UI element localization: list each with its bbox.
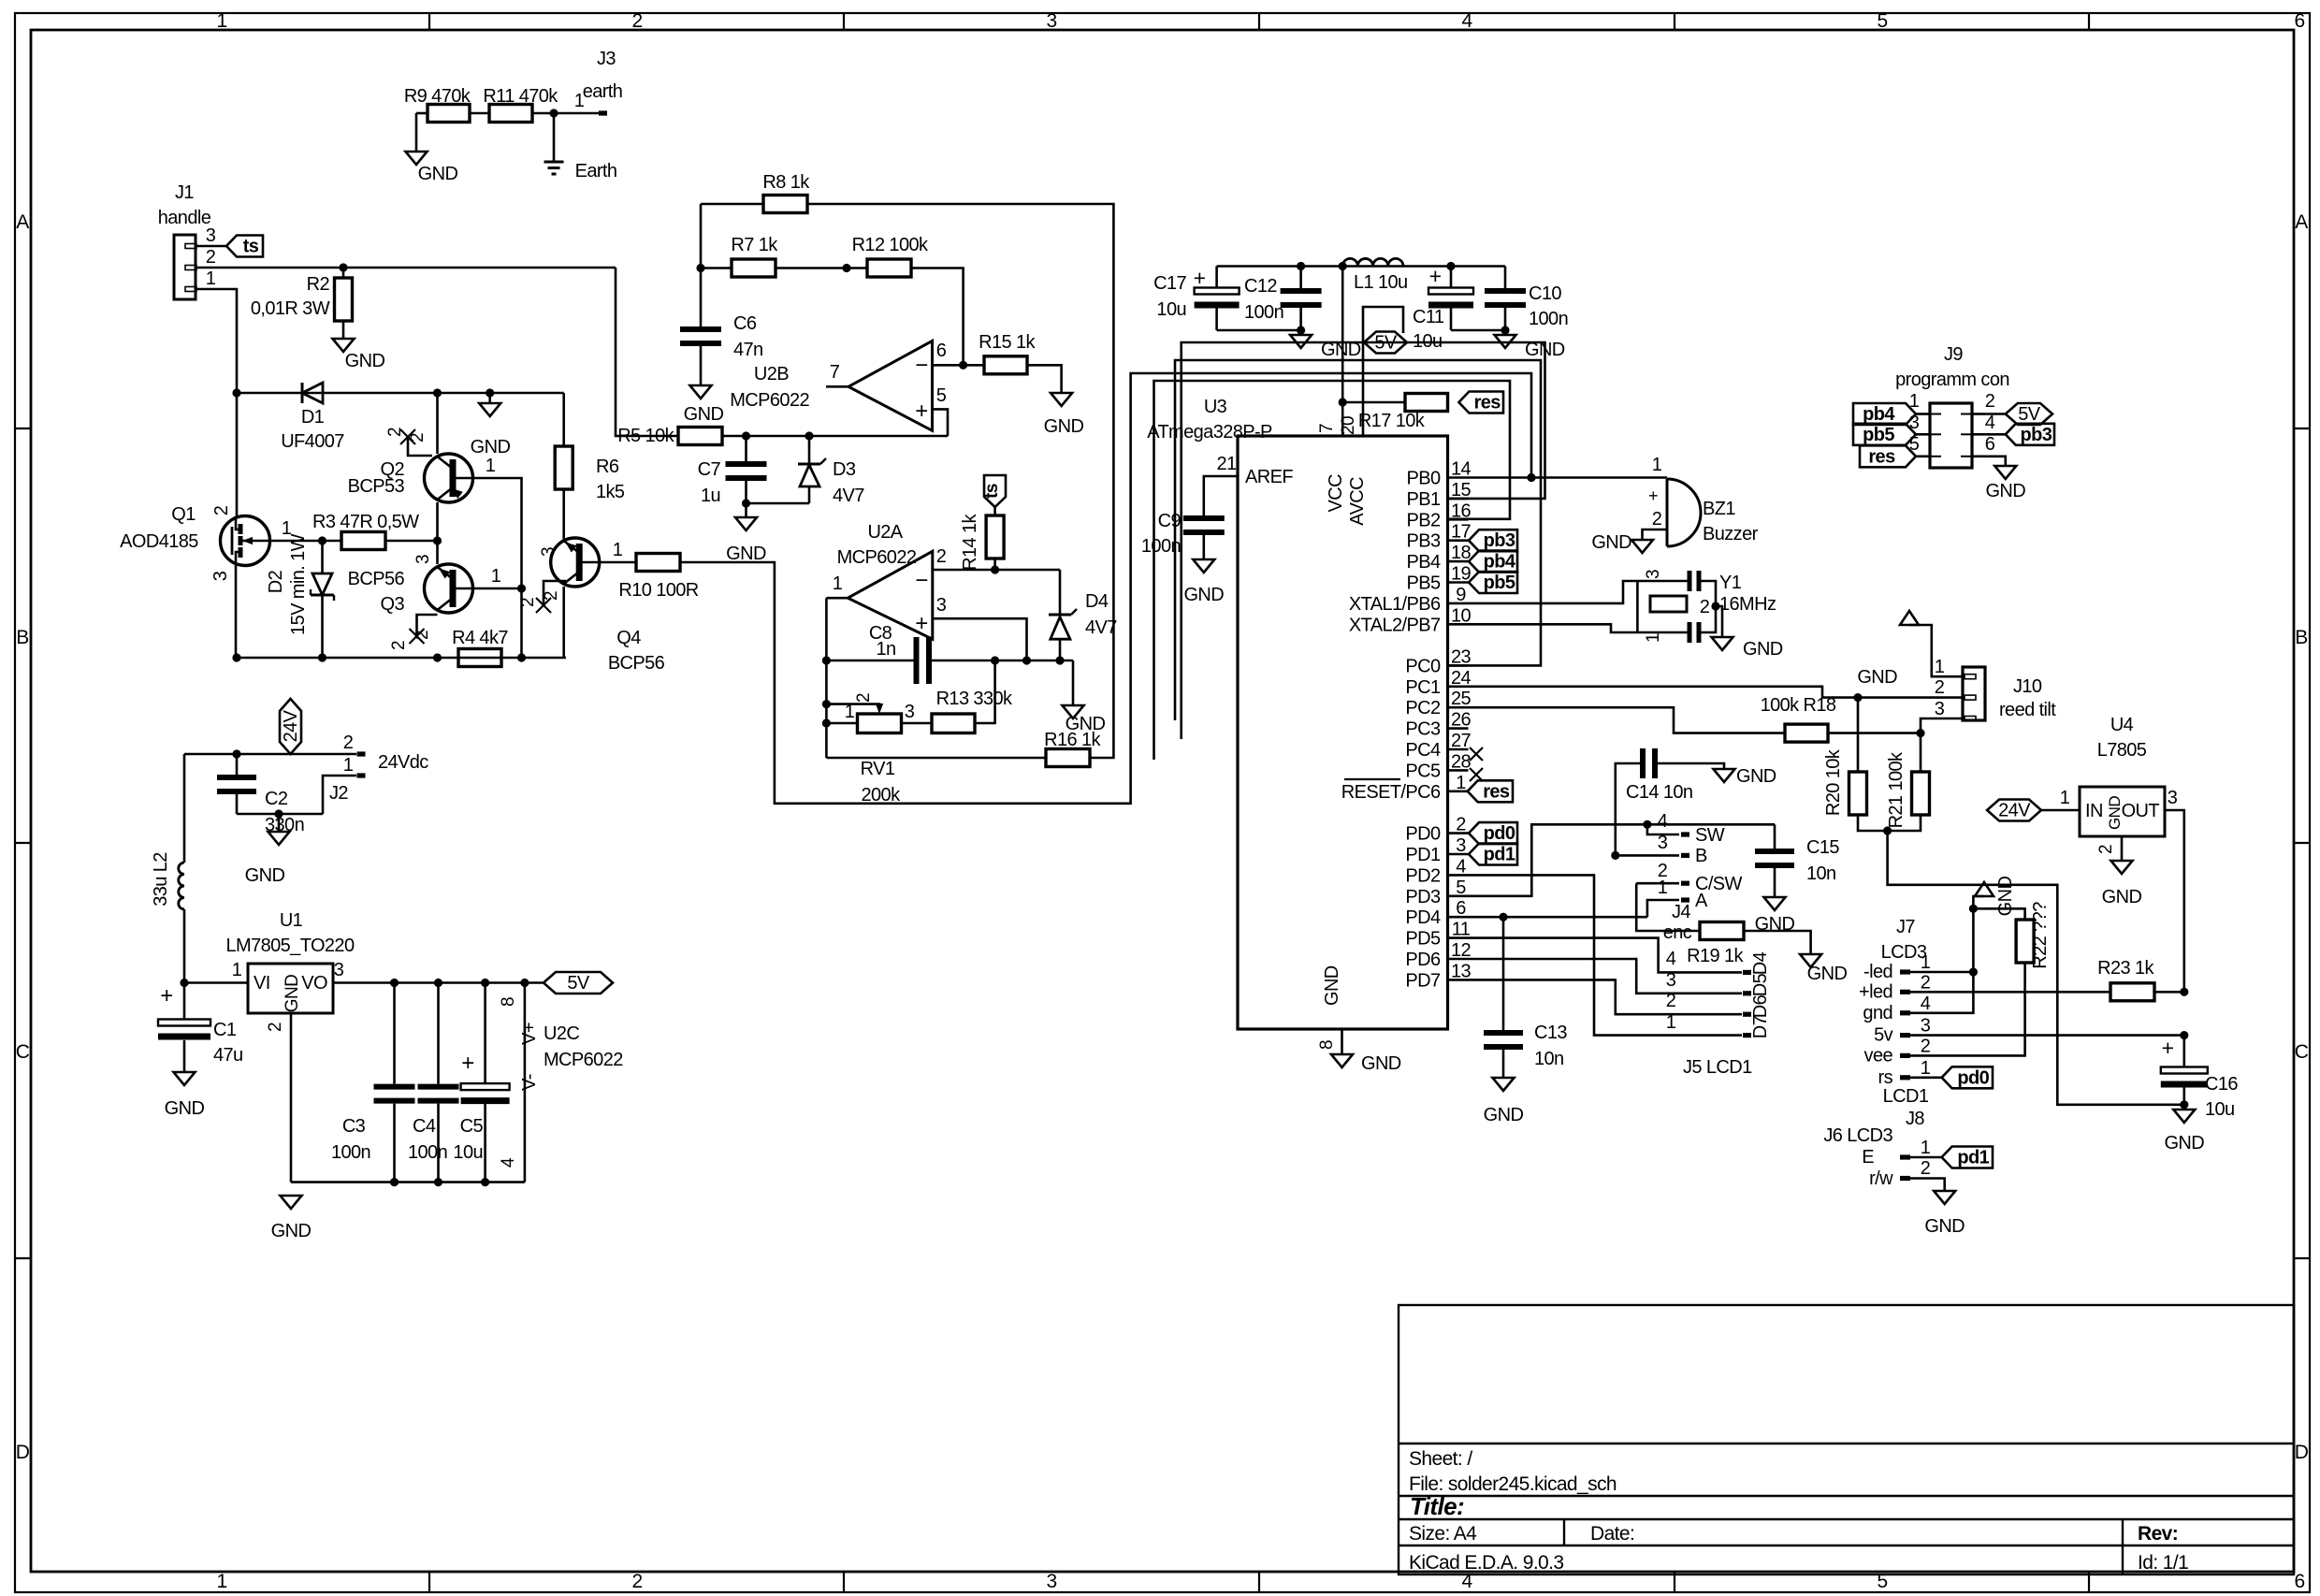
svg-text:4: 4 [499, 1157, 518, 1168]
svg-text:J7: J7 [1896, 917, 1915, 937]
svg-text:1: 1 [486, 456, 496, 476]
J4 pin1 A [1647, 900, 1679, 917]
U1 pin1 wire [184, 981, 248, 984]
svg-text:+: + [160, 983, 172, 1008]
svg-text:C6: C6 [733, 313, 757, 334]
svg-text:4V7: 4V7 [833, 486, 864, 506]
Q4 no-connect pin 2 [562, 587, 565, 658]
svg-text:100k R18: 100k R18 [1761, 695, 1836, 716]
node [959, 361, 967, 370]
svg-text:C10: C10 [1529, 283, 1561, 304]
wire left node column [700, 204, 703, 268]
svg-text:PD7: PD7 [1405, 970, 1441, 991]
node [1611, 851, 1619, 860]
svg-text:MCP6022: MCP6022 [544, 1050, 623, 1070]
svg-text:GND: GND [283, 975, 302, 1012]
resistor R10 100R [636, 554, 680, 572]
svg-text:−: − [915, 353, 927, 378]
svg-text:20: 20 [1339, 416, 1358, 435]
net label ts [226, 236, 263, 257]
svg-text:10n: 10n [1534, 1049, 1564, 1069]
svg-text:PC3: PC3 [1405, 719, 1441, 740]
svg-text:3: 3 [1658, 833, 1668, 853]
svg-text:IN: IN [2085, 801, 2103, 821]
J10 pin1 GND [1909, 625, 1963, 676]
svg-text:PD0: PD0 [1405, 824, 1441, 845]
svg-text:handle: handle [158, 208, 211, 228]
trimmer RV1 200k [826, 722, 857, 725]
node [991, 656, 999, 664]
svg-text:PD4: PD4 [1405, 907, 1441, 928]
svg-text:Buzzer: Buzzer [1703, 524, 1759, 544]
svg-text:pb4: pb4 [1863, 404, 1895, 425]
svg-text:R8 1k: R8 1k [762, 172, 810, 193]
node [1969, 905, 1978, 913]
ground GND [2111, 861, 2133, 874]
svg-text:Q1: Q1 [171, 504, 196, 525]
svg-text:pb5: pb5 [1863, 425, 1894, 445]
svg-text:GND: GND [1321, 340, 1361, 360]
svg-text:1n: 1n [876, 639, 895, 660]
wire [1451, 329, 1505, 332]
node [1501, 326, 1509, 334]
svg-text:U2C: U2C [544, 1023, 579, 1044]
wire PC1 to J10 pin2 [1469, 687, 1964, 698]
node [318, 653, 326, 661]
svg-text:GND: GND [1361, 1053, 1401, 1074]
svg-text:programm con: programm con [1895, 370, 2009, 390]
wire R22 to vee [1910, 963, 2025, 1055]
svg-text:UF4007: UF4007 [281, 431, 344, 452]
node [1339, 262, 1347, 270]
svg-text:C5: C5 [460, 1116, 484, 1137]
svg-text:C12: C12 [1244, 276, 1277, 297]
svg-text:D7: D7 [1750, 1015, 1771, 1038]
svg-text:3: 3 [905, 702, 915, 722]
net label pb4 [1469, 551, 1517, 573]
node [486, 388, 494, 397]
svg-text:2: 2 [1666, 991, 1676, 1011]
svg-text:R17 10k: R17 10k [1358, 411, 1426, 431]
Q1 pin 2 wire (top) [236, 393, 239, 516]
svg-text:2: 2 [1700, 597, 1710, 617]
svg-text:GND: GND [1322, 965, 1342, 1006]
svg-text:3: 3 [1666, 970, 1676, 991]
node [1499, 913, 1507, 921]
svg-text:R2: R2 [307, 274, 330, 295]
node [1969, 967, 1978, 976]
resistor R7 1k [701, 267, 732, 269]
svg-text:100n: 100n [1244, 302, 1283, 323]
svg-text:J2: J2 [329, 783, 348, 804]
svg-text:GND: GND [2102, 887, 2142, 907]
svg-text:GND: GND [1484, 1105, 1524, 1125]
svg-text:2: 2 [211, 505, 232, 515]
svg-text:VCC: VCC [1326, 474, 1346, 513]
connector J10 reed tilt [1963, 667, 1985, 720]
ground GND [1994, 466, 2016, 479]
svg-text:OUT: OUT [2122, 801, 2160, 821]
J5 pad D7 [1743, 1033, 1751, 1037]
Q1 pin1 wire to R3 [269, 540, 341, 543]
svg-text:XTAL2/PB7: XTAL2/PB7 [1349, 615, 1441, 635]
resistor R8 1k [701, 203, 763, 206]
wire [1217, 329, 1301, 332]
svg-text:6: 6 [936, 341, 947, 361]
svg-text:1: 1 [491, 566, 501, 587]
ground GND [1504, 330, 1507, 335]
svg-text:PB4: PB4 [1406, 552, 1440, 573]
svg-text:PC4: PC4 [1405, 740, 1441, 761]
U3 GND pin8 wire [1341, 1029, 1343, 1054]
svg-text:C4: C4 [413, 1116, 436, 1137]
U3 pin stubs [1448, 476, 1469, 479]
svg-text:3: 3 [936, 595, 947, 616]
capacitor C10 100n [1504, 267, 1507, 289]
svg-text:D4: D4 [1750, 951, 1771, 975]
capacitor C16 10u [2183, 1036, 2186, 1067]
svg-text:2: 2 [206, 247, 216, 268]
svg-text:R20 10k: R20 10k [1823, 748, 1844, 816]
svg-text:21: 21 [1216, 454, 1237, 474]
svg-text:PC0: PC0 [1405, 656, 1441, 676]
svg-text:C15: C15 [1806, 837, 1839, 858]
wire R13 to C8 node [975, 660, 995, 723]
svg-text:10u: 10u [2205, 1099, 2235, 1120]
PB2 loop wire [1154, 381, 1511, 760]
svg-text:VI: VI [254, 973, 270, 994]
BZ1 pin2 wire to GND [1643, 530, 1668, 540]
svg-text:J8: J8 [1906, 1109, 1924, 1129]
svg-text:+: + [461, 1051, 473, 1076]
ground GND [1714, 769, 1735, 782]
resistor R17 10k [1342, 401, 1405, 404]
svg-text:pb3: pb3 [2021, 425, 2052, 445]
svg-text:R12 100k: R12 100k [852, 235, 929, 255]
wire ts sense to R5 [616, 268, 678, 436]
svg-text:B: B [16, 627, 28, 648]
svg-text:24V: 24V [281, 709, 301, 742]
5V power flag [544, 972, 613, 994]
wire [470, 112, 489, 115]
U2B pin5 wire [933, 409, 949, 436]
svg-text:D3: D3 [833, 459, 856, 480]
svg-text:GND: GND [1736, 766, 1776, 787]
node [2180, 1100, 2188, 1109]
svg-text:6: 6 [2294, 1571, 2304, 1592]
svg-text:8: 8 [499, 997, 518, 1007]
wire R18 to J10 pin3 [1828, 718, 1963, 733]
svg-text:100n: 100n [331, 1142, 370, 1163]
wire GND bus under caps [291, 1181, 525, 1183]
svg-text:D: D [2295, 1442, 2309, 1463]
svg-text:1: 1 [833, 573, 843, 594]
connector J3 pin 1 [599, 110, 607, 115]
node [481, 979, 489, 987]
svg-text:C7: C7 [698, 459, 721, 480]
svg-text:B: B [2295, 627, 2307, 648]
svg-text:D1: D1 [301, 407, 325, 428]
svg-text:5V: 5V [1374, 333, 1398, 354]
svg-text:GND: GND [1807, 964, 1848, 984]
svg-text:1u: 1u [701, 486, 720, 506]
svg-text:GND: GND [245, 865, 285, 886]
J6 pin E [1900, 1154, 1910, 1159]
connector J2 pin 2 pad [357, 751, 366, 756]
node [1916, 729, 1924, 737]
U2A output column [825, 598, 828, 758]
wire R19 to GND [1744, 931, 1811, 954]
svg-text:1: 1 [216, 1571, 226, 1592]
regulator U1 LM7805_TO220 [248, 964, 333, 1013]
ground GND [1193, 559, 1214, 573]
node [1643, 820, 1651, 829]
wire R15 to GND [1027, 365, 1062, 393]
RESET overline [1344, 778, 1400, 780]
wire PD5 to D4 pad [1469, 938, 1743, 973]
node [822, 700, 831, 708]
capacitor C5 10u [484, 983, 486, 1084]
svg-text:1: 1 [845, 702, 855, 722]
node [232, 388, 240, 397]
svg-text:Id: 1/1: Id: 1/1 [2138, 1552, 2188, 1574]
wire to C16 gnd node [1888, 831, 2184, 1105]
ground GND [1299, 330, 1302, 335]
resistor R11 [489, 105, 532, 123]
node [1711, 602, 1719, 610]
crystal Y1 16MHz [1469, 581, 1638, 603]
svg-text:GND: GND [726, 544, 766, 564]
wire [415, 113, 418, 152]
svg-text:2: 2 [518, 598, 538, 607]
ground GND [745, 503, 747, 517]
wire C/SW to R19 [1636, 883, 1700, 931]
node pin2/R2 junction [339, 263, 347, 271]
ground GND [1800, 954, 1821, 967]
svg-text:1: 1 [1658, 878, 1668, 898]
resistor R16 1k [826, 757, 1046, 760]
svg-text:1: 1 [232, 960, 242, 980]
svg-text:C16: C16 [2205, 1074, 2238, 1095]
svg-text:Q3: Q3 [381, 594, 405, 615]
svg-text:R10 100R: R10 100R [618, 580, 698, 601]
J4 pin3 B [1616, 854, 1679, 857]
svg-text:2: 2 [385, 428, 405, 437]
J5 pad D6 [1743, 1012, 1751, 1017]
svg-text:10n: 10n [1806, 863, 1836, 884]
svg-text:R13 330k: R13 330k [936, 689, 1013, 709]
svg-text:R7 1k: R7 1k [731, 235, 778, 255]
svg-text:2: 2 [1921, 1158, 1931, 1179]
svg-text:reed tilt: reed tilt [1999, 700, 2056, 720]
svg-text:LCD1: LCD1 [1883, 1086, 1929, 1107]
svg-text:VO: VO [301, 973, 327, 994]
svg-text:5V: 5V [2018, 404, 2041, 425]
net label pb4 at J9 [1853, 403, 1916, 425]
svg-text:C13: C13 [1534, 1023, 1567, 1043]
net label pb3 [1469, 530, 1517, 551]
wire R10 to PB0 loop [680, 373, 1531, 804]
no-connect PC5 [1470, 768, 1483, 781]
node [822, 656, 831, 664]
svg-text:24V: 24V [1998, 801, 2031, 821]
wire gnd row to -led [1910, 908, 1973, 1013]
svg-text:PD6: PD6 [1405, 950, 1441, 970]
resistor R13 330k [932, 714, 975, 733]
svg-text:47u: 47u [213, 1045, 243, 1066]
svg-text:XTAL1/PB6: XTAL1/PB6 [1349, 594, 1441, 615]
net label pd1 [1469, 844, 1517, 865]
capacitor C9 100n [1183, 515, 1225, 521]
svg-text:Sheet: /: Sheet: / [1409, 1448, 1472, 1470]
svg-text:GND: GND [1183, 585, 1224, 605]
capacitor C8 1n [826, 660, 914, 662]
svg-text:GND: GND [471, 437, 511, 457]
svg-text:3: 3 [1921, 1016, 1931, 1037]
svg-text:KiCad E.D.A. 9.0.3: KiCad E.D.A. 9.0.3 [1409, 1552, 1563, 1574]
svg-text:U3: U3 [1204, 397, 1227, 417]
resistor R6 1k5 [562, 393, 565, 446]
svg-text:ts: ts [243, 237, 259, 257]
resistor R14 1k [986, 515, 1004, 559]
svg-text:BCP56: BCP56 [348, 569, 405, 589]
frame column/row ticks [428, 13, 430, 30]
svg-text:A: A [1695, 891, 1708, 911]
resistor R22 ??? [1973, 908, 2024, 920]
node [842, 264, 850, 272]
PC0 loop wire [1175, 360, 1541, 720]
node [1297, 326, 1305, 334]
wire PD6 to D5 pad [1469, 959, 1743, 994]
svg-text:C: C [16, 1041, 30, 1063]
ground GND [1764, 897, 1786, 910]
svg-text:PC5: PC5 [1405, 761, 1441, 781]
svg-text:3: 3 [1046, 10, 1056, 32]
power flag 5V to AVCC [1363, 307, 1403, 436]
svg-text:GND: GND [1743, 639, 1783, 660]
svg-text:1: 1 [1935, 657, 1945, 677]
U2A pin2 wire [933, 569, 1060, 572]
J7 pin rs [1900, 1075, 1910, 1080]
svg-text:U4: U4 [2110, 715, 2134, 735]
zener diode D4 4V7 [1059, 570, 1062, 615]
wire [902, 722, 933, 725]
svg-text:R9 470k: R9 470k [404, 86, 471, 107]
svg-text:R15 1k: R15 1k [979, 332, 1036, 353]
svg-text:5V: 5V [567, 973, 590, 994]
U2A pin3 wire [933, 618, 1027, 660]
ground GND [406, 152, 428, 165]
op-amp U2C power pins [524, 983, 527, 1182]
svg-text:4: 4 [1658, 811, 1668, 832]
svg-text:PB2: PB2 [1406, 510, 1440, 530]
J5 pad D5 [1743, 991, 1751, 995]
Q4 base wire to R10 [600, 561, 636, 564]
diode D1 UF4007 [302, 383, 323, 403]
svg-text:Y1: Y1 [1719, 573, 1742, 593]
wire source rail [237, 657, 566, 660]
ground GND [1631, 540, 1653, 553]
svg-text:rs: rs [1878, 1067, 1893, 1088]
transistor Q1 AOD4185 [221, 516, 270, 566]
svg-text:2: 2 [343, 733, 354, 753]
U3 VCC pin7 wire [1341, 267, 1344, 437]
svg-text:16MHz: 16MHz [1719, 594, 1776, 615]
node [1297, 262, 1305, 270]
svg-text:r/w: r/w [1869, 1168, 1893, 1189]
svg-text:3: 3 [1046, 1571, 1056, 1592]
resistor R4 4k7 [458, 649, 501, 667]
zener diode D2 15V [321, 541, 324, 573]
svg-text:U2A: U2A [867, 522, 903, 543]
resistor R2 [342, 268, 345, 278]
inductor L2 33u [183, 754, 186, 863]
resistor R5 10k [678, 428, 722, 445]
wire R23 to 5v net [2154, 991, 2184, 994]
capacitor C1 47u [183, 983, 186, 1021]
Q2 base wire [473, 478, 522, 658]
svg-text:PD3: PD3 [1405, 887, 1441, 907]
svg-text:J9: J9 [1944, 344, 1963, 365]
net label pb5 at J9 [1853, 424, 1916, 445]
svg-text:U2B: U2B [754, 364, 789, 384]
svg-text:B: B [1695, 846, 1707, 866]
net label pb3 at J9 [1987, 433, 2006, 436]
wire rs to pd0 [1910, 1077, 1942, 1080]
title block [1399, 1305, 2294, 1574]
svg-text:100n: 100n [1141, 536, 1181, 557]
wire R5 to C7/D3 row [722, 435, 948, 438]
PB1 loop wire [1182, 342, 1545, 739]
svg-text:Date:: Date: [1590, 1523, 1634, 1545]
J4 pin4 SW [1647, 824, 1679, 834]
svg-text:3: 3 [1935, 699, 1945, 719]
svg-text:R19 1k: R19 1k [1687, 946, 1744, 966]
svg-text:J1: J1 [175, 182, 194, 203]
svg-text:1: 1 [613, 540, 623, 560]
svg-text:RESET/PC6: RESET/PC6 [1341, 782, 1441, 803]
svg-text:pd1: pd1 [1957, 1148, 1989, 1168]
svg-text:GND: GND [345, 351, 385, 371]
svg-text:R23 1k: R23 1k [2097, 958, 2154, 979]
svg-text:2: 2 [1935, 677, 1945, 698]
svg-text:200k: 200k [862, 785, 902, 805]
wire 24V top rail [237, 392, 564, 395]
svg-text:D5: D5 [1750, 973, 1771, 996]
wire R3 to Q2/Q3 node [385, 540, 438, 543]
wire [342, 321, 345, 339]
svg-text:R4 4k7: R4 4k7 [452, 628, 508, 648]
pin 1 wire [196, 289, 237, 393]
net label ts (vertical) [993, 507, 996, 515]
resistor R21 100k [1920, 733, 1922, 772]
svg-text:1: 1 [1644, 633, 1663, 643]
svg-text:PD5: PD5 [1405, 929, 1441, 950]
ground GND [1072, 660, 1075, 705]
capacitor C6 47n [700, 268, 703, 327]
svg-text:4: 4 [1461, 10, 1472, 32]
svg-text:C9: C9 [1158, 511, 1182, 531]
wire PD2 to D7 pad [1469, 875, 1743, 1035]
node [1853, 693, 1862, 702]
node [232, 653, 240, 661]
Q2 pin3 wire to Q3 [436, 502, 439, 564]
wire PD4 to A and C13 [1469, 916, 1647, 919]
svg-text:1: 1 [1921, 1058, 1931, 1079]
svg-text:2: 2 [1921, 1036, 1931, 1056]
svg-text:enc: enc [1663, 922, 1692, 943]
svg-text:gnd: gnd [1863, 1003, 1892, 1023]
